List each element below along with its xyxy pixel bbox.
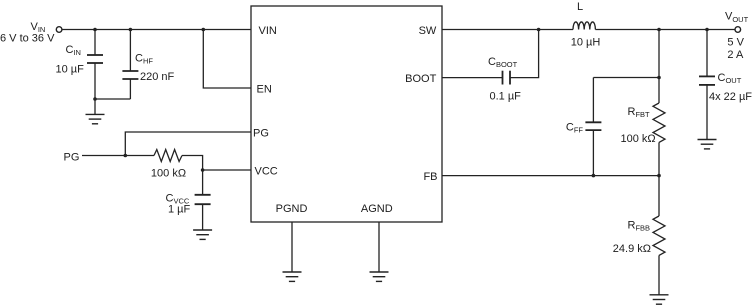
svg-text:6 V to 36 V: 6 V to 36 V: [0, 33, 55, 45]
node FB-CFF junction: [592, 174, 596, 178]
ground RFBB: [650, 295, 669, 304]
ground PGND: [283, 272, 302, 281]
svg-text:VCC: VCC: [255, 166, 278, 178]
svg-text:220 nF: 220 nF: [140, 71, 175, 83]
wire CFF top branch: [593, 77, 659, 79]
ground input: [86, 99, 105, 124]
svg-text:100 kΩ: 100 kΩ: [151, 168, 186, 180]
svg-text:0.1 µF: 0.1 µF: [490, 91, 522, 103]
wire CBOOT to SW node: [510, 30, 539, 78]
ground AGND: [370, 272, 389, 281]
wire VOUT node down to RFBT: [658, 30, 660, 104]
svg-text:24.9 kΩ: 24.9 kΩ: [613, 243, 651, 255]
capacitor CFF: [585, 78, 601, 176]
wire resistor to VCC node: [182, 156, 203, 171]
node VCC junction: [201, 168, 205, 172]
wire PG input lead: [82, 155, 154, 157]
wire CIN bottom to CHF bottom: [95, 98, 130, 100]
svg-text:4x 22 µF: 4x 22 µF: [709, 91, 752, 103]
ground CVCC: [193, 230, 212, 239]
wire PG pin to pull-up node: [125, 132, 251, 156]
wire EN branch: [203, 30, 251, 89]
VOUT output terminal: [735, 27, 741, 33]
node SW-BOOT junction: [537, 28, 541, 32]
wire RFBT to FB node: [658, 142, 660, 175]
inductor L 10 uH: [573, 22, 595, 30]
capacitor CBOOT: [503, 71, 511, 85]
node VOUT-RFBT junction: [657, 28, 661, 32]
svg-text:10 µF: 10 µF: [56, 64, 85, 76]
resistor PG pull-up 100 k: [154, 150, 182, 162]
node CIN-CHF-ground junction: [93, 97, 97, 101]
wire FB node to RFBB: [658, 176, 660, 216]
svg-text:PG: PG: [64, 151, 80, 163]
capacitor CHF: [122, 30, 138, 100]
wire BOOT pin to CBOOT: [442, 77, 503, 79]
svg-text:AGND: AGND: [361, 203, 393, 215]
svg-text:L: L: [577, 1, 583, 13]
node CFF-RFBT top junction: [657, 76, 661, 80]
wire FB pin: [442, 175, 659, 177]
svg-text:100 kΩ: 100 kΩ: [620, 133, 655, 145]
svg-text:SW: SW: [419, 25, 437, 37]
ground COUT: [698, 140, 717, 149]
node PG junction: [124, 154, 128, 158]
node VIN-EN junction: [202, 28, 206, 32]
wire U1 AGND pin to ground: [378, 222, 380, 272]
node VIN-CIN junction: [93, 28, 97, 32]
wire VIN terminal to U1 VIN pin: [62, 29, 251, 31]
svg-text:5 V: 5 V: [727, 36, 744, 48]
svg-text:EN: EN: [257, 84, 272, 96]
node FB-RFBT-RFBB junction: [657, 174, 661, 178]
node VOUT-COUT junction: [705, 28, 709, 32]
wire inductor to VOUT terminal: [595, 29, 735, 31]
resistor RFBB 24.9 k: [653, 216, 665, 255]
wire SW pin to inductor: [442, 29, 573, 31]
wire RFBB to ground: [658, 255, 660, 294]
node VIN-CHF junction: [129, 28, 133, 32]
svg-text:BOOT: BOOT: [405, 73, 436, 85]
capacitor CVCC: [195, 170, 211, 230]
op-amp U1 regulator body: [251, 6, 442, 222]
wire U1 PGND pin to ground: [291, 222, 293, 272]
svg-text:1 µF: 1 µF: [168, 204, 191, 216]
svg-text:PGND: PGND: [276, 203, 308, 215]
svg-text:2 A: 2 A: [727, 49, 744, 61]
svg-text:VIN: VIN: [259, 25, 277, 37]
capacitor CIN: [87, 30, 103, 100]
VIN input terminal: [56, 27, 62, 33]
capacitor COUT: [699, 30, 715, 140]
svg-text:FB: FB: [423, 171, 437, 183]
svg-text:10 µH: 10 µH: [571, 36, 601, 48]
svg-text:PG: PG: [253, 128, 269, 140]
wire VCC node to U1 VCC pin: [203, 169, 251, 171]
resistor RFBT 100 k: [653, 103, 665, 142]
